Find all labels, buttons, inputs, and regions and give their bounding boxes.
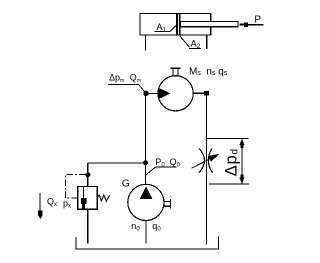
- motor shaft: [172, 68, 174, 76]
- dPm underline: [108, 83, 139, 85]
- motor triangle: [159, 88, 171, 99]
- svg-text:Ms ns qs: Ms ns qs: [189, 66, 228, 77]
- pump triangle: [140, 186, 153, 199]
- dimension top tick: [207, 138, 249, 140]
- svg-text:n0: n0: [131, 221, 140, 233]
- pump circle: [128, 184, 164, 220]
- node: pump outlet junction: [143, 160, 148, 165]
- wire valve drain: [87, 209, 89, 243]
- svg-text:G: G: [122, 178, 130, 190]
- dPm leader: [139, 84, 147, 93]
- A2 underline: [189, 47, 201, 49]
- wire junction to motor: [146, 92, 158, 94]
- wire valve top port: [87, 163, 89, 186]
- throttle valve right arc: [208, 148, 212, 172]
- wire pump suction: [145, 221, 147, 244]
- relief valve spring: [97, 195, 109, 201]
- piston rod: [180, 22, 238, 27]
- cylinder left port: [144, 35, 146, 50]
- svg-text:P: P: [254, 14, 261, 25]
- cylinder body: [140, 14, 211, 36]
- svg-text:P0 Q0: P0 Q0: [155, 157, 180, 169]
- force line: [248, 24, 264, 26]
- wire right main line: [205, 96, 207, 245]
- A1 leader: [166, 25, 176, 31]
- throttle valve left arc: [199, 148, 205, 172]
- A1 underline: [155, 31, 167, 33]
- svg-text:q0: q0: [152, 221, 161, 233]
- relief valve internal arrow: [81, 198, 86, 209]
- relief valve box V1: [78, 186, 97, 209]
- relief valve internal line: [83, 186, 85, 209]
- node: motor outlet junction (square): [204, 91, 209, 96]
- svg-text:px: px: [63, 199, 71, 210]
- wire branch to relief valve: [88, 162, 146, 164]
- P0 leader: [146, 167, 156, 175]
- dimension bottom tick: [209, 183, 249, 185]
- svg-text:Qx: Qx: [47, 197, 57, 209]
- wire motor to right junction: [193, 92, 204, 94]
- Qx flow arrow: [39, 193, 41, 211]
- force arrow P: [239, 22, 248, 27]
- cylinder right port: [206, 35, 208, 49]
- svg-text:Qm: Qm: [130, 73, 141, 85]
- pump shaft: [164, 200, 170, 202]
- node: pilot junction: [85, 172, 90, 177]
- dimension arrows: [239, 139, 244, 184]
- pilot dash-dot line: [66, 175, 86, 199]
- throttle adjust arrow: [192, 158, 211, 168]
- piston: [176, 14, 180, 36]
- P0 underline: [155, 166, 176, 168]
- svg-text:Δpd: Δpd: [222, 148, 240, 176]
- motor M circle: [158, 76, 193, 111]
- wire left main line: [145, 93, 147, 184]
- dimension line: [241, 139, 243, 185]
- node: motor inlet junction: [143, 91, 148, 96]
- A2 leader: [180, 36, 190, 48]
- svg-text:Δpm: Δpm: [109, 73, 124, 85]
- tank: [76, 237, 218, 249]
